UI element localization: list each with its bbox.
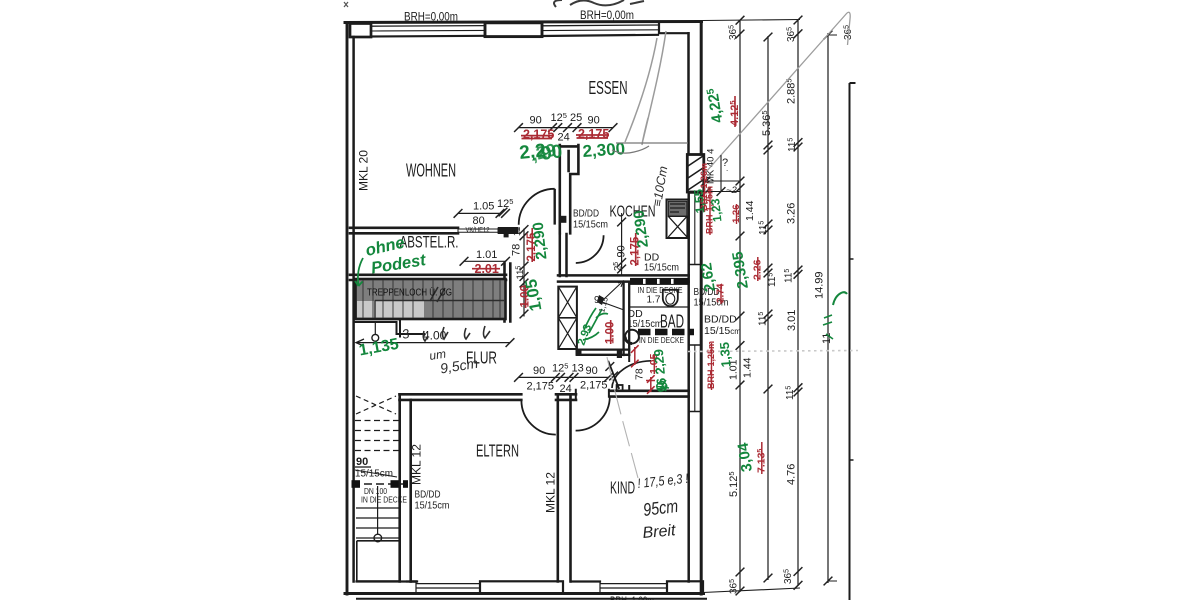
svg-text:11: 11 (512, 227, 522, 236)
svg-text:1,55: 1,55 (691, 188, 707, 214)
duct anchors dashed line (352, 483, 406, 485)
top-left corner block (350, 24, 371, 38)
scan speck top-left (344, 2, 348, 7)
chimney hatched block (687, 155, 704, 193)
under-stair closet (357, 541, 400, 581)
top exterior wall outer line (345, 22, 702, 23)
top-right corner inner lines (659, 23, 689, 33)
svg-text:24: 24 (560, 383, 572, 395)
door BAD arc (612, 361, 651, 388)
pencil diagonal in KIND (607, 357, 638, 478)
bath window end marks (689, 345, 701, 412)
red dim line at KIND door top (646, 375, 655, 394)
svg-text:90: 90 (588, 115, 600, 127)
window top-B sill lines (542, 24, 658, 27)
sheet edge tick (850, 259, 854, 460)
stairs right wall corner foot (411, 580, 417, 582)
svg-text:MKL 12: MKL 12 (410, 444, 424, 485)
svg-text:.: . (726, 164, 728, 173)
svg-text:ABSTEL.R.: ABSTEL.R. (400, 234, 459, 252)
svg-text:ELTERN: ELTERN (476, 441, 519, 461)
svg-text:3.01: 3.01 (786, 310, 798, 331)
step wall below TREPPENLOCH (356, 319, 425, 336)
door WOHNEN arc (519, 189, 555, 225)
bottom window B lines (600, 582, 667, 593)
green tick marks near 11 (823, 315, 833, 339)
door BAD slanted leaf (608, 361, 619, 389)
svg-text:BRH=0,00m: BRH=0,00m (404, 12, 458, 24)
svg-text:15/15cm: 15/15cm (704, 325, 741, 337)
svg-text:15/15cm: 15/15cm (573, 219, 608, 231)
left exterior wall outer line (346, 23, 349, 594)
chain line L1 (736, 16, 745, 596)
svg-text:1.44: 1.44 (744, 200, 756, 221)
green arrow (355, 258, 363, 286)
green scribble at KIND door (656, 380, 669, 391)
chain top connector line (703, 20, 800, 21)
svg-text:1,23: 1,23 (708, 198, 724, 223)
door ELTERN arc (521, 400, 555, 434)
FLUR / ELTERN top wall (400, 394, 522, 400)
svg-text:95cm: 95cm (642, 496, 679, 520)
BAD mid thin line (629, 306, 689, 308)
svg-text:125 25: 125 25 (551, 111, 583, 124)
stair treads dashed (355, 421, 399, 451)
ABSTELR opening frame VK/HE12 (458, 228, 498, 233)
small dim chimney to L1 (702, 157, 745, 185)
green scribbles in WC (583, 308, 608, 340)
dim ABSTELR door 1.05 (454, 197, 514, 234)
bath window mid line in right wall (694, 345, 696, 411)
svg-text:ESSEN: ESSEN (589, 77, 628, 98)
chain line L4 overall (824, 31, 837, 586)
dim chain WOHNEN/ESSEN doors top (514, 111, 617, 144)
stair walk-line circle upper (372, 334, 379, 341)
door WOHNEN leaf (554, 189, 556, 225)
door KIND arc (576, 396, 610, 430)
ELTERN/KIND divider wall (558, 397, 571, 582)
top wall pier block (485, 23, 542, 37)
right exterior wall inner line (below chimney) (687, 192, 690, 582)
chain bottom connector line (703, 588, 800, 593)
wall piece over ELTERN/KIND divider (556, 394, 576, 400)
small dim chimney stub (706, 155, 740, 192)
svg-text:BRH=0,00m: BRH=0,00m (580, 10, 634, 22)
svg-text:90: 90 (586, 365, 598, 377)
stair treads lower (356, 508, 400, 538)
svg-text:78: 78 (634, 368, 646, 380)
dim vertical at KOCHEN door (613, 213, 628, 276)
pencil horizontal line at 2,300 (612, 143, 688, 153)
wall right of TREPPENLOCH (505, 264, 511, 322)
diagonal pencil line (706, 12, 850, 172)
svg-text:1.7: 1.7 (647, 295, 661, 306)
wall T-piece black at WOHNEN wall (498, 227, 519, 234)
stair chevron dashes top (356, 396, 396, 414)
svg-text:1,35: 1,35 (717, 342, 734, 368)
svg-text:90: 90 (533, 365, 545, 377)
door KOCHEN hinge block (559, 216, 566, 223)
WC vent shaft X-boxes (558, 287, 577, 349)
bottom exterior second outer line at sheet edge (357, 598, 706, 600)
chain line L3 (794, 16, 803, 590)
chain line L2 (764, 33, 773, 583)
WC bottom wall (577, 350, 629, 355)
svg-text:1.01: 1.01 (476, 249, 497, 261)
dim FLUR chain (514, 362, 613, 396)
KIND top wall (610, 391, 689, 397)
treppenloch hatched slab (356, 279, 506, 319)
svg-text:IN DIE DECKE: IN DIE DECKE (638, 285, 683, 295)
svg-text:90: 90 (530, 115, 542, 127)
svg-text:BD/DD: BD/DD (704, 314, 737, 326)
ABSTELR bottom wall / TREPPENLOCH top (350, 275, 506, 280)
svg-text:BAD: BAD (660, 312, 684, 332)
svg-text:90: 90 (356, 456, 368, 468)
fold dotted line (688, 351, 858, 352)
bottom wall inner line left segment (357, 580, 417, 582)
BAD lower dashed black bar (638, 329, 694, 335)
svg-text:WOHNEN: WOHNEN (406, 160, 456, 181)
wall T-piece jamb stub (504, 234, 509, 238)
svg-text:15/15cm: 15/15cm (415, 500, 450, 512)
stairs right wall (400, 394, 411, 581)
svg-text:~2: ~2 (726, 185, 738, 196)
svg-text:15/15cm: 15/15cm (644, 262, 679, 274)
svg-text:BRH=1,00m: BRH=1,00m (610, 595, 654, 600)
kitchen window mid line in right wall (694, 193, 696, 264)
right exterior wall outer line (700, 22, 703, 595)
bottom window A lines (416, 582, 480, 593)
bottom exterior wall outer line (345, 592, 704, 595)
divider wall top end cap (576, 390, 609, 400)
sheet edge vertical line right (850, 83, 856, 600)
right exterior wall inner line (above chimney) (687, 33, 690, 154)
stair walk line lower (377, 486, 379, 535)
bottom wall pier block (480, 581, 563, 593)
left exterior wall inner line (352, 37, 355, 582)
svg-text:IN DIE DECKE: IN DIE DECKE (639, 335, 684, 345)
svg-text:MKL 12: MKL 12 (544, 472, 558, 513)
dim FLUR 4.00 line (356, 329, 514, 348)
window top-A sill lines (371, 25, 485, 28)
svg-text:IN DIE DECKE: IN DIE DECKE (361, 495, 407, 505)
svg-text:KIND: KIND (610, 478, 635, 498)
svg-text:1.05: 1.05 (473, 201, 494, 213)
svg-text:15/15cm: 15/15cm (355, 469, 393, 480)
svg-text:1.44: 1.44 (742, 357, 754, 378)
WOHNEN bottom wall double lines (350, 228, 458, 234)
central stub wall between WOHNEN and ESSEN (560, 145, 579, 233)
treppenloch inner step line (375, 301, 505, 319)
svg-text:2,175: 2,175 (578, 127, 609, 141)
dim vertical at WOHNEN door (499, 208, 529, 319)
hand check arrows on 4.00 line (423, 326, 490, 341)
bottom wall inner line at ELTERN left (407, 580, 416, 582)
svg-text:2,300: 2,300 (582, 139, 626, 161)
dim ABSTELR door 1.01 (460, 249, 510, 266)
svg-text:3.26: 3.26 (786, 203, 798, 224)
toilet (663, 290, 678, 306)
WC black blob + arrows (597, 295, 604, 305)
top margin scribble cut (554, 0, 644, 7)
WC bottom wall jamb block (617, 350, 622, 359)
svg-text:125 13: 125 13 (552, 362, 584, 375)
svg-text:2,175: 2,175 (580, 380, 608, 392)
stair walk-line circle lower (374, 534, 382, 542)
svg-text:2,175: 2,175 (527, 381, 555, 393)
treppenloch lighter lower-left zone (357, 301, 424, 318)
svg-text:4.76: 4.76 (786, 464, 798, 485)
svg-text:90: 90 (616, 245, 628, 257)
svg-text:TREPPENLOCH Ü. OG: TREPPENLOCH Ü. OG (367, 287, 452, 299)
KIND top wall notch (617, 385, 623, 391)
WC / BAD top wall (558, 275, 689, 281)
pencil curves in ESSEN (625, 31, 666, 145)
svg-text:78: 78 (511, 244, 523, 256)
BAD top black bar BH-1.00 (630, 278, 690, 285)
svg-text:MKL 20: MKL 20 (357, 150, 371, 191)
door KOCHEN arc (576, 235, 604, 263)
svg-text:VK/HE12: VK/HE12 (466, 227, 490, 234)
svg-text:Breit: Breit (642, 522, 677, 542)
bath tub circle (625, 330, 639, 344)
duct anchor blocks (352, 480, 361, 488)
BAD left wall low segment (628, 355, 630, 391)
svg-text:14.99: 14.99 (814, 271, 826, 299)
svg-text:80: 80 (473, 215, 485, 227)
red dim line at BAD door (631, 345, 639, 367)
bottom-right corner block (667, 581, 703, 593)
kitchen window end marks (689, 193, 701, 265)
green check right margin (833, 292, 847, 305)
WC right wall (624, 282, 630, 355)
KOCHEN left wall below door (560, 234, 567, 276)
svg-text:15/15cm: 15/15cm (628, 318, 663, 330)
kitchen sink unit (667, 200, 689, 239)
